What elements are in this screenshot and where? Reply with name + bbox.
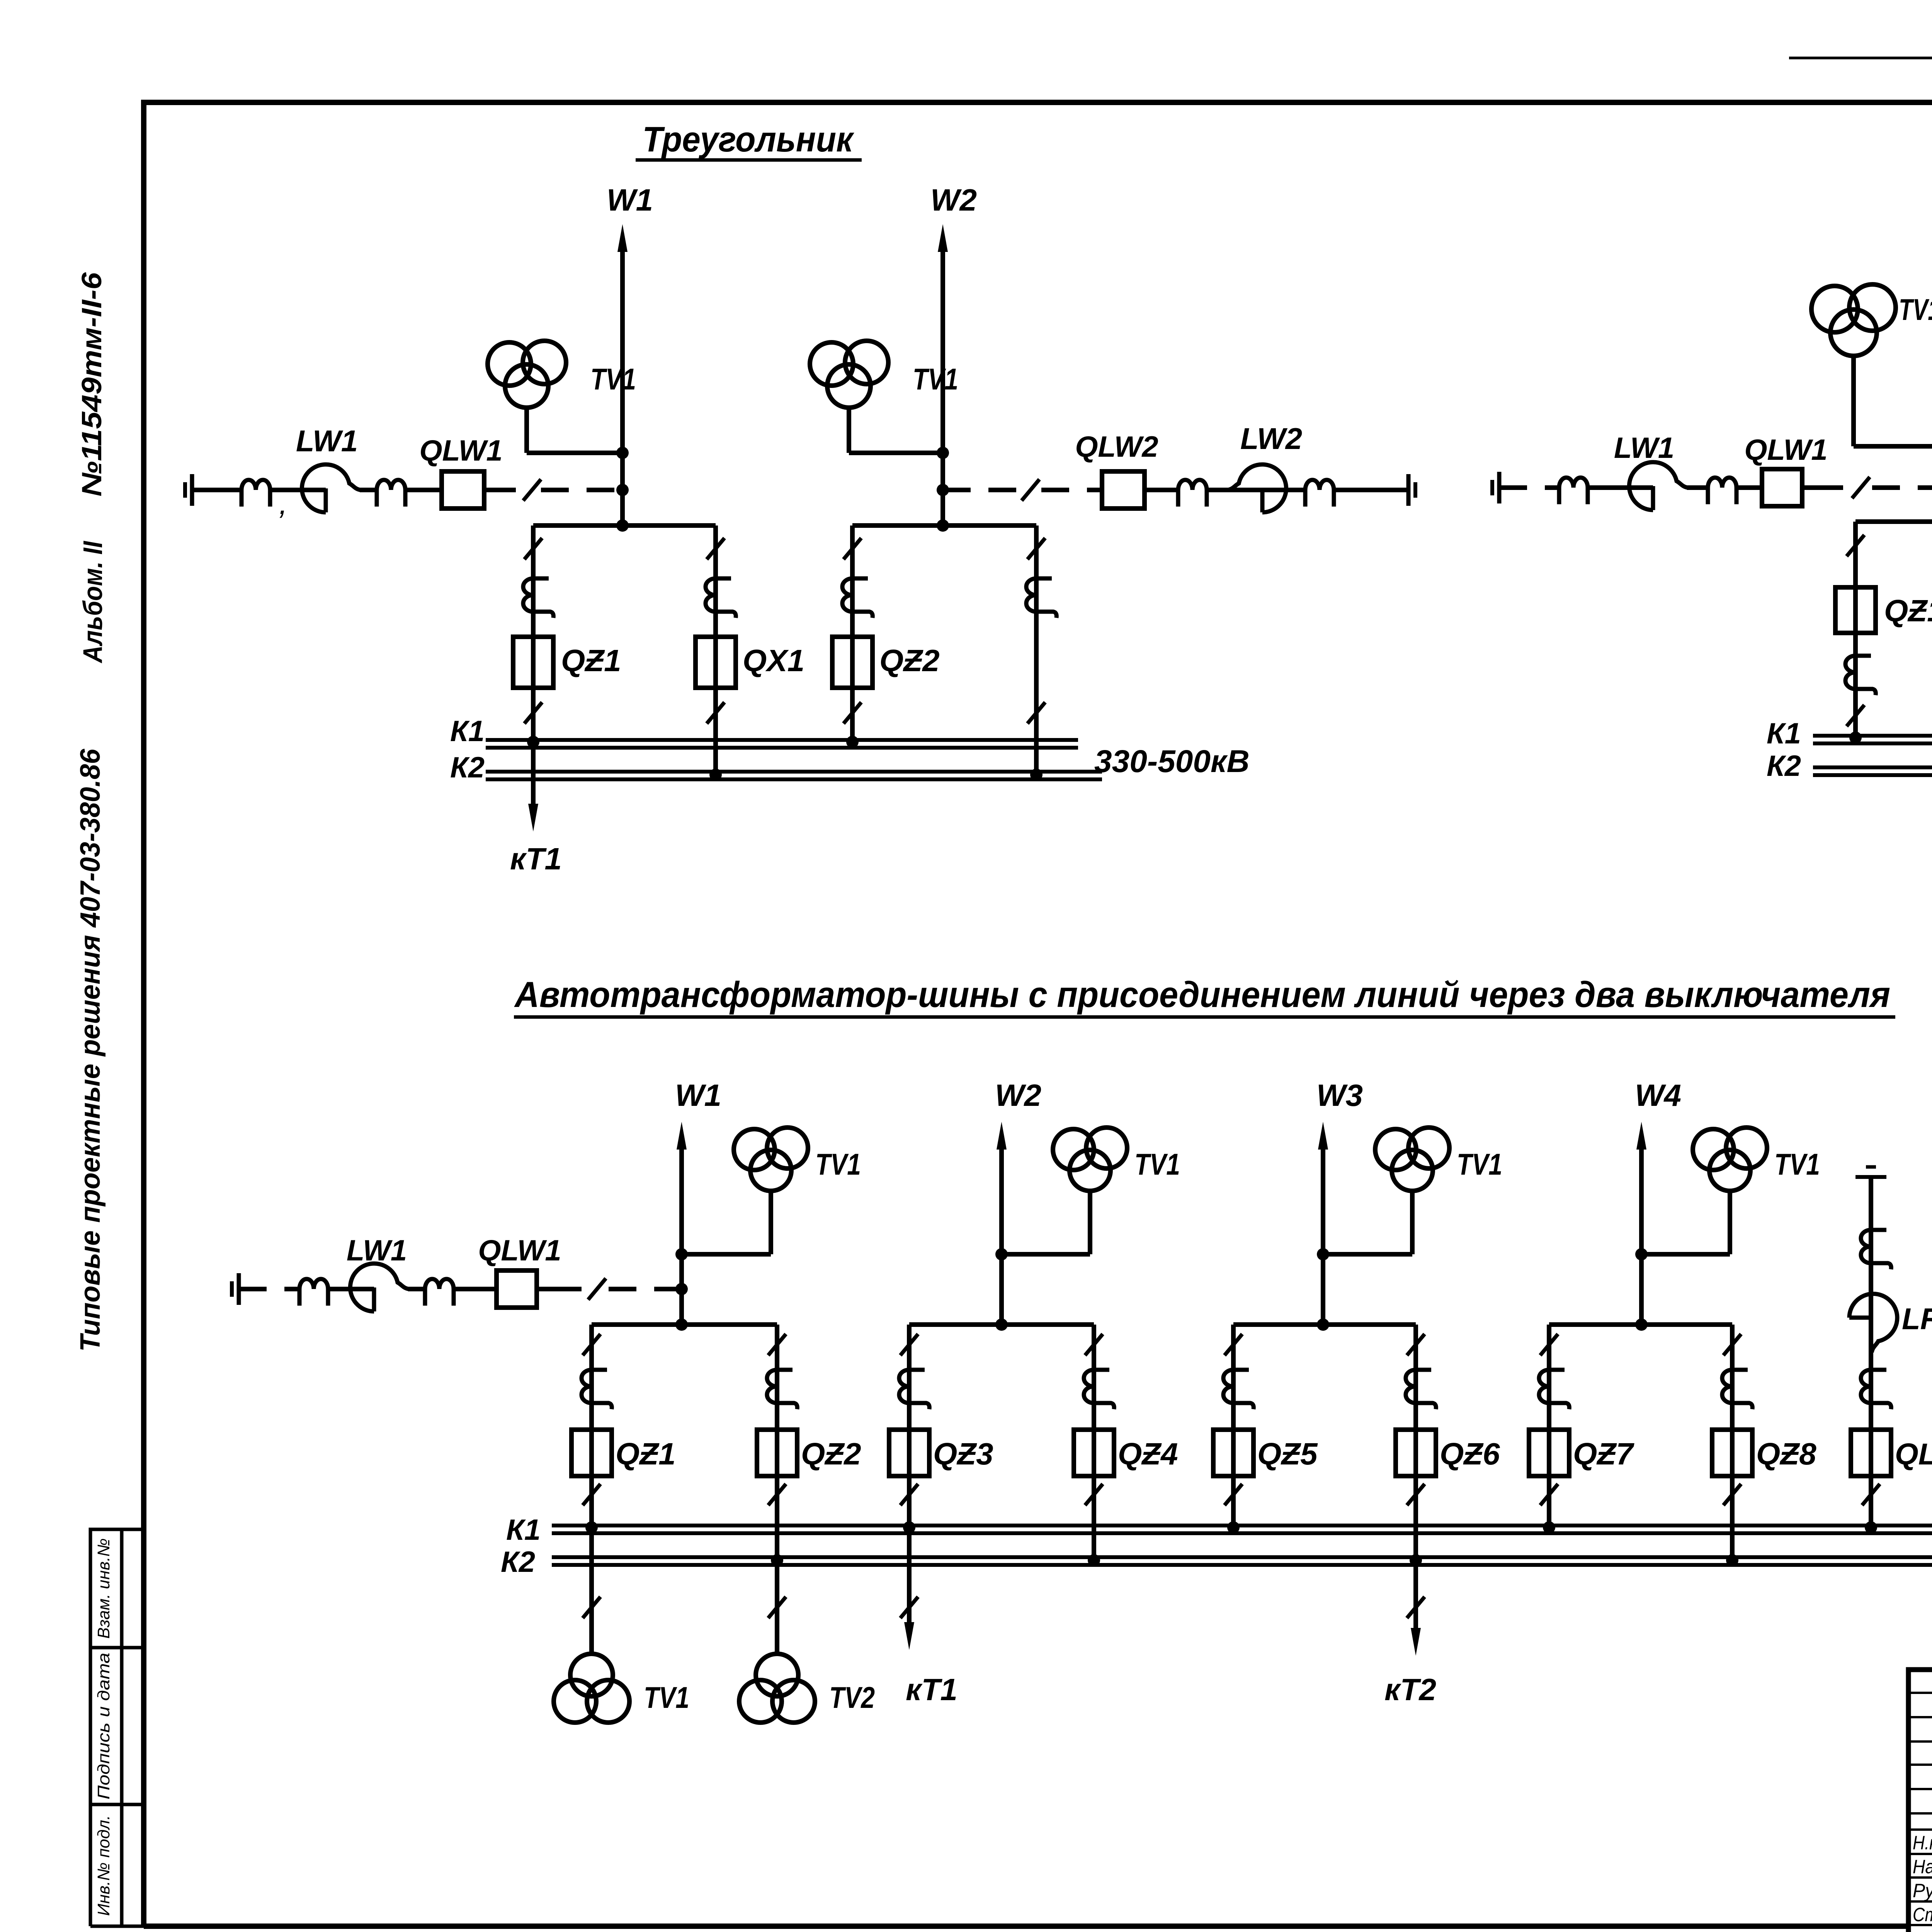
svg-text:Треугольник: Треугольник: [643, 120, 855, 159]
slash mark: [1225, 1334, 1242, 1355]
slash mark: [1847, 535, 1864, 556]
node QƵ4-K2 scheme 3: [1088, 1554, 1100, 1566]
svg-text:К1: К1: [1767, 717, 1801, 750]
slash mark: [588, 1278, 606, 1299]
svg-text:LW2: LW2: [1240, 422, 1302, 456]
title block row N kontr: [1913, 1832, 1932, 1854]
bus K2 scheme 3: [552, 1557, 1932, 1565]
slash mark: [583, 1597, 600, 1618]
title block left grid: [1908, 1670, 1932, 1932]
leg wire QƵ3: [907, 1325, 912, 1633]
node QZ1-K1 s2: [1849, 731, 1862, 744]
breaker QƵ3: [889, 1430, 929, 1476]
current transformer on QZ1: [523, 578, 553, 618]
label W3 scheme 3: [1316, 1078, 1363, 1112]
reactor LW2: [1228, 464, 1286, 512]
reactor LR1: [1849, 1294, 1897, 1352]
node W1-bay scheme 3: [675, 1318, 688, 1331]
slash mark: [523, 479, 541, 500]
bay 3 top wire scheme 3: [1233, 1322, 1416, 1327]
breaker QZ1: [513, 637, 553, 688]
slash mark: [900, 1484, 918, 1505]
svg-text:QLR1: QLR1: [1895, 1437, 1932, 1471]
label K2: [450, 751, 485, 784]
node W2-bay: [937, 519, 949, 532]
bay 1 top wire scheme 3: [592, 1322, 777, 1327]
line trap: [425, 1279, 454, 1306]
svg-text:QƵ7: QƵ7: [1573, 1437, 1634, 1471]
node dashed-W1: [616, 484, 629, 496]
current transformer on QƵ8: [1722, 1370, 1752, 1409]
svg-text:Взам. инв.№: Взам. инв.№: [94, 1538, 113, 1639]
label QƵ7 scheme 3: [1573, 1437, 1634, 1471]
line W2: [938, 224, 948, 526]
leg wire QX1: [713, 526, 718, 779]
wire: [1145, 488, 1178, 492]
breaker QƵ4: [1074, 1430, 1114, 1476]
label QƵ2 scheme 3: [801, 1437, 861, 1471]
node W2-bay scheme 3: [995, 1318, 1008, 1331]
label TV2 bottom scheme 3: [829, 1680, 875, 1714]
svg-text:кТ2: кТ2: [1384, 1672, 1436, 1707]
label TV1 on W2: [913, 362, 958, 396]
label LW1 scheme 2: [1614, 432, 1674, 464]
slash mark: [1540, 1334, 1558, 1355]
node link-K2: [1030, 769, 1043, 781]
line trap: [377, 480, 405, 507]
svg-text:LW1: LW1: [347, 1234, 407, 1267]
svg-text:QƵ2: QƵ2: [801, 1437, 861, 1471]
wire TV1 to W3 scheme 3: [1323, 1252, 1412, 1257]
svg-text:QX1: QX1: [743, 643, 804, 678]
svg-text:LR1: LR1: [1902, 1302, 1932, 1336]
node QZ1-K1: [527, 736, 539, 748]
svg-text:Рук. гр.: Рук. гр.: [1913, 1880, 1932, 1901]
left margin table: [90, 1529, 144, 1926]
line W2 scheme 3: [997, 1122, 1007, 1325]
slash mark: [1862, 1484, 1880, 1505]
label TV1 on W2 scheme 3: [1134, 1147, 1180, 1181]
svg-text:LW1: LW1: [296, 424, 358, 458]
transformer TV1 bottom scheme 3: [554, 1654, 629, 1723]
leg wire QƵ7: [1547, 1325, 1551, 1528]
margin text inventory number: [77, 272, 107, 497]
current transformer on QƵ4: [1084, 1370, 1114, 1409]
node TV1-W1 scheme 3: [675, 1248, 688, 1260]
bay 1 top wire: [533, 523, 716, 528]
wire W1 down scheme 3: [679, 1289, 684, 1325]
svg-text:W1: W1: [607, 183, 653, 217]
label QƵ6 scheme 3: [1440, 1437, 1500, 1471]
arrow to kT1 scheme 3: [904, 1622, 914, 1650]
slash mark: [844, 538, 861, 559]
leg wire QZ1: [531, 526, 536, 814]
bus K2 scheme 1: [486, 772, 1102, 779]
left margin table label Podpis i data: [94, 1653, 113, 1799]
line trap: [1708, 478, 1736, 504]
svg-text:QƵ3: QƵ3: [933, 1437, 993, 1471]
node QƵ7-K1 scheme 3: [1543, 1521, 1555, 1534]
title block outer frame: [1908, 1670, 1932, 1932]
line terminator right: [1408, 474, 1415, 506]
breaker QƵ5: [1213, 1430, 1253, 1476]
wire LR1 branch: [1869, 1177, 1873, 1528]
slash mark: [1540, 1484, 1558, 1505]
label QX1: [743, 643, 804, 678]
node QƵ6-K2 scheme 3: [1410, 1554, 1422, 1566]
ground symbol above LR1: [1855, 1167, 1886, 1177]
label QZ2: [879, 643, 940, 678]
leg wire QƵ6: [1413, 1325, 1418, 1633]
dashed wire to W1: [541, 488, 622, 492]
voltage transformer TV1 on W2: [810, 341, 888, 453]
svg-text:W1: W1: [675, 1078, 721, 1112]
wire TV1 to W2: [849, 451, 943, 455]
node QƵ3-K1 scheme 3: [903, 1521, 915, 1534]
label TV1 bottom scheme 3: [644, 1680, 689, 1714]
slash mark: [1723, 1484, 1741, 1505]
node TV1-W3 scheme 3: [1317, 1248, 1329, 1260]
label K1 scheme 2: [1767, 717, 1801, 750]
label kT2 scheme 3: [1384, 1672, 1436, 1707]
slash mark: [1407, 1484, 1425, 1505]
slash mark: [1852, 477, 1870, 498]
svg-text:W4: W4: [1635, 1078, 1681, 1112]
wire: [192, 488, 241, 492]
wire: [1802, 485, 1843, 490]
current transformer on QX1: [706, 578, 736, 618]
current transformer on QƵ5: [1223, 1370, 1253, 1409]
svg-text:Инв.№ подл.: Инв.№ подл.: [94, 1815, 113, 1916]
label QLW2: [1075, 430, 1158, 463]
svg-text:TV1: TV1: [815, 1147, 861, 1181]
current transformer on QƵ6: [1406, 1370, 1436, 1409]
svg-text:TV1: TV1: [644, 1680, 689, 1714]
slash mark: [1407, 1334, 1425, 1355]
wire: [1262, 488, 1305, 492]
current transformer upper on LR1: [1861, 1230, 1891, 1269]
breaker QƵ1: [571, 1430, 612, 1476]
slash mark: [1723, 1334, 1741, 1355]
current transformer on QZ2: [842, 578, 872, 618]
wire: [270, 488, 326, 492]
svg-text:QƵ6: QƵ6: [1440, 1437, 1500, 1471]
label QƵ1 scheme 3: [616, 1437, 676, 1471]
wire: [1736, 485, 1762, 490]
svg-text:W2: W2: [930, 183, 977, 217]
slash mark: [768, 1484, 786, 1505]
label W4 scheme 3: [1635, 1078, 1681, 1112]
label QLW1 scheme 2: [1744, 434, 1827, 466]
wire: [484, 488, 516, 492]
node dashed-W1 scheme 3: [675, 1283, 688, 1295]
leg wire QƵ2: [775, 1325, 779, 1654]
slash mark: [1085, 1484, 1103, 1505]
svg-text:Автотрансформатор-шины с присо: Автотрансформатор-шины с присоединением …: [514, 974, 1890, 1015]
svg-text:К2: К2: [1767, 750, 1801, 782]
label W2 scheme 3: [995, 1078, 1041, 1112]
breaker QZ2: [832, 637, 872, 688]
voltage transformer TV1 on W3 scheme 3: [1375, 1128, 1449, 1254]
svg-text:Ст инж.: Ст инж.: [1913, 1904, 1932, 1925]
disconnector QLW2: [1102, 471, 1145, 509]
svg-text:W3: W3: [1316, 1078, 1363, 1112]
leg wire QƵ1: [589, 1325, 594, 1654]
node W1-bay: [616, 519, 629, 532]
svg-text:LW1: LW1: [1614, 432, 1674, 464]
dashed wire to W1 scheme 2: [1872, 485, 1932, 490]
left margin table label Vzam inv: [94, 1538, 113, 1639]
label W2: [930, 183, 977, 217]
node QƵ5-K1 scheme 3: [1227, 1521, 1240, 1534]
frame bottom border: [144, 1923, 1908, 1929]
breaker QX1: [696, 637, 736, 688]
node QƵ8-K2 scheme 3: [1726, 1554, 1738, 1566]
bay 1 top wire scheme 2: [1855, 519, 1932, 524]
wire: [1207, 488, 1262, 492]
slash mark: [524, 702, 542, 723]
left margin table label Inv N podl: [94, 1815, 113, 1916]
line trap: [241, 480, 270, 507]
leg wire QZ1 s2: [1853, 522, 1858, 738]
label QZ1: [561, 643, 621, 678]
dashed wire: [239, 1287, 299, 1291]
bus K1 scheme 3: [552, 1526, 1932, 1533]
svg-text:QƵ5: QƵ5: [1257, 1437, 1318, 1471]
line terminator left scheme 2: [1492, 472, 1499, 503]
label LW1 scheme 3: [347, 1234, 407, 1267]
disconnector QLW1: [442, 471, 484, 509]
slash mark: [524, 538, 542, 559]
svg-text:Альбом. II: Альбом. II: [78, 541, 108, 663]
svg-text:W2: W2: [995, 1078, 1041, 1112]
label W1 scheme 3: [675, 1078, 721, 1112]
label 330-500kV scheme 1: [1094, 744, 1250, 779]
current transformer on link: [1026, 578, 1056, 618]
node QZ2-K1: [846, 736, 859, 748]
slash mark: [900, 1597, 918, 1618]
wire: [1588, 485, 1653, 490]
label TV1 on W1: [590, 362, 636, 396]
label kT1 scheme 3: [906, 1672, 957, 1707]
label TV1 on W1 scheme 3: [815, 1147, 861, 1181]
slash mark: [844, 702, 861, 723]
svg-text:№11549тм-II-6: №11549тм-II-6: [77, 272, 107, 497]
svg-text:QƵ4: QƵ4: [1118, 1437, 1178, 1471]
breaker QZ1 s2: [1835, 587, 1876, 633]
dashed wire: [1499, 485, 1559, 490]
slash mark: [1847, 705, 1864, 726]
line W1 scheme 3: [677, 1122, 687, 1325]
label QZ1 scheme 2: [1884, 594, 1932, 628]
label TV1 on W3 scheme 3: [1457, 1147, 1502, 1181]
line trap: [1305, 480, 1334, 507]
current transformer lower on LR1: [1861, 1370, 1891, 1409]
label TV1 on W1 scheme 2: [1899, 293, 1932, 327]
node TV1-W4 scheme 3: [1635, 1248, 1648, 1260]
svg-text:К1: К1: [506, 1514, 541, 1546]
title block row Nach PTP: [1913, 1856, 1932, 1878]
line trap: [1559, 478, 1588, 504]
slash mark: [1027, 702, 1045, 723]
voltage transformer TV1 on W4 scheme 3: [1693, 1128, 1767, 1254]
current transformer on QƵ3: [899, 1370, 929, 1409]
wire: [328, 1287, 374, 1291]
disconnector QLW1 scheme 3: [497, 1270, 537, 1308]
bay 2 top wire: [852, 523, 1036, 528]
svg-text:QƵ1: QƵ1: [561, 643, 621, 678]
label K2 scheme 3: [501, 1546, 535, 1578]
label TV1 on W4 scheme 3: [1774, 1147, 1820, 1181]
slash mark: [1407, 1597, 1425, 1618]
svg-text:TV1: TV1: [1134, 1147, 1180, 1181]
svg-text:Типовые проектные решения 407-: Типовые проектные решения 407-03-380.86: [75, 748, 106, 1352]
line trap: [299, 1279, 328, 1306]
node QX1-K2: [709, 769, 722, 781]
label LW1: [296, 424, 358, 458]
arrow to kT1: [528, 804, 538, 832]
label QƵ5 scheme 3: [1257, 1437, 1318, 1471]
svg-text:QLW1: QLW1: [478, 1234, 561, 1267]
title block row Ruk gr: [1913, 1880, 1932, 1901]
svg-text:Нач.ПТП: Нач.ПТП: [1913, 1856, 1932, 1878]
svg-text:К2: К2: [450, 751, 485, 784]
voltage transformer TV1 on W1 scheme 2: [1811, 284, 1896, 446]
arrow to kT2 scheme 3: [1411, 1628, 1421, 1656]
svg-text:QƵ2: QƵ2: [879, 643, 940, 678]
wire TV1 to W1 scheme 3: [682, 1252, 771, 1257]
bus K1 scheme 2: [1813, 736, 1932, 743]
reactor LW1 scheme 3: [350, 1264, 409, 1311]
reactor LW1 scheme 2: [1629, 462, 1688, 510]
svg-text:TV1: TV1: [1899, 293, 1932, 327]
wire: [408, 1287, 425, 1291]
breaker QƵ2: [757, 1430, 797, 1476]
svg-text:TV1: TV1: [590, 362, 636, 396]
slash mark: [1085, 1334, 1103, 1355]
leg wire QZ2: [850, 526, 855, 742]
title block row St inzh: [1913, 1904, 1932, 1925]
margin text typical project solutions: [75, 748, 106, 1352]
label kT1: [510, 842, 562, 876]
voltage transformer TV1 on W2 scheme 3: [1053, 1128, 1127, 1254]
bay 4 top wire scheme 3: [1549, 1322, 1732, 1327]
wire: [1687, 485, 1708, 490]
wire: [454, 1287, 497, 1291]
svg-text:TV1: TV1: [1457, 1147, 1502, 1181]
wire: [405, 488, 442, 492]
line terminator left scheme 3: [232, 1273, 239, 1305]
node QLR1-K1: [1865, 1521, 1877, 1534]
svg-text:кТ1: кТ1: [906, 1672, 957, 1707]
current transformer on QƵ7: [1539, 1370, 1569, 1409]
breaker QƵ7: [1529, 1430, 1569, 1476]
slash mark: [1022, 479, 1039, 500]
sheet top edge line: [1789, 57, 1932, 60]
disconnector QLW1 scheme 2: [1762, 469, 1802, 506]
svg-text:кТ1: кТ1: [510, 842, 562, 876]
label QLW1 scheme 3: [478, 1234, 561, 1267]
slash mark: [768, 1597, 786, 1618]
slash mark: [707, 538, 724, 559]
svg-text:QLW2: QLW2: [1075, 430, 1158, 463]
svg-text:QƵ1: QƵ1: [1884, 594, 1932, 628]
svg-text:К2: К2: [501, 1546, 535, 1578]
node W3-bay scheme 3: [1317, 1318, 1329, 1331]
label LR1: [1902, 1302, 1932, 1336]
leg wire QƵ5: [1231, 1325, 1236, 1528]
scheme 1 title Treugolnik: [636, 120, 862, 160]
slash mark: [1027, 538, 1045, 559]
svg-text:Подпись и дата: Подпись и дата: [94, 1653, 113, 1799]
bay 2 top wire scheme 3: [909, 1322, 1094, 1327]
transformer TV2 bottom scheme 3: [739, 1654, 815, 1723]
bus K2 scheme 2: [1813, 767, 1932, 775]
svg-text:330-500кВ: 330-500кВ: [1094, 744, 1250, 779]
slash mark: [768, 1334, 786, 1355]
wire TV1 to W4 scheme 3: [1641, 1252, 1730, 1257]
wire: [537, 1287, 582, 1291]
leg wire link: [1034, 526, 1039, 779]
line W4 scheme 3: [1636, 1122, 1646, 1325]
line W3 scheme 3: [1318, 1122, 1328, 1325]
dashed wire from W2: [943, 488, 1020, 492]
label K1 scheme 3: [506, 1514, 541, 1546]
node TV1-W2: [937, 447, 949, 459]
dashed wire: [1041, 488, 1102, 492]
leg wire QƵ8: [1730, 1325, 1735, 1565]
svg-text:TV1: TV1: [913, 362, 958, 396]
svg-text:QLW1: QLW1: [1744, 434, 1827, 466]
slash mark: [707, 702, 724, 723]
label QƵ8 scheme 3: [1756, 1437, 1816, 1471]
slash mark: [583, 1484, 600, 1505]
margin text album II: [78, 541, 108, 663]
svg-text:К1: К1: [450, 715, 485, 748]
node TV1-W2 scheme 3: [995, 1248, 1008, 1260]
slash mark: [1225, 1484, 1242, 1505]
node TV1-W1: [616, 447, 629, 459]
wire: [360, 488, 377, 492]
line trap: [1178, 480, 1207, 507]
wire: [1334, 488, 1408, 492]
svg-text:TV2: TV2: [829, 1680, 875, 1714]
voltage transformer TV1 on W1: [488, 341, 566, 453]
label K2 scheme 2: [1767, 750, 1801, 782]
voltage transformer TV1 on W1 scheme 3: [734, 1128, 808, 1254]
current transformer on QZ1 s2: [1845, 656, 1876, 695]
svg-text:TV1: TV1: [1774, 1147, 1820, 1181]
wire TV1 to W1 scheme 2: [1854, 444, 1932, 449]
node dashed-W2: [937, 484, 949, 496]
label K1: [450, 715, 485, 748]
current transformer on QƵ1: [582, 1370, 612, 1409]
svg-text:Н.контр.: Н.контр.: [1913, 1832, 1932, 1854]
svg-text:QƵ1: QƵ1: [616, 1437, 676, 1471]
current transformer on QƵ2: [767, 1370, 797, 1409]
earthing disconnector QLR1: [1851, 1430, 1891, 1476]
breaker QƵ8: [1712, 1430, 1752, 1476]
line W1: [617, 224, 628, 526]
label QƵ4 scheme 3: [1118, 1437, 1178, 1471]
wire TV1 to W1: [527, 451, 622, 455]
wire TV1 to W2 scheme 3: [1002, 1252, 1090, 1257]
node QƵ1-K1 scheme 3: [585, 1521, 598, 1534]
scheme 3 title Autotransformer-buses: [514, 974, 1895, 1017]
node QƵ2-K2 scheme 3: [771, 1554, 783, 1566]
svg-text:QƵ8: QƵ8: [1756, 1437, 1816, 1471]
label QLW1: [419, 434, 502, 467]
